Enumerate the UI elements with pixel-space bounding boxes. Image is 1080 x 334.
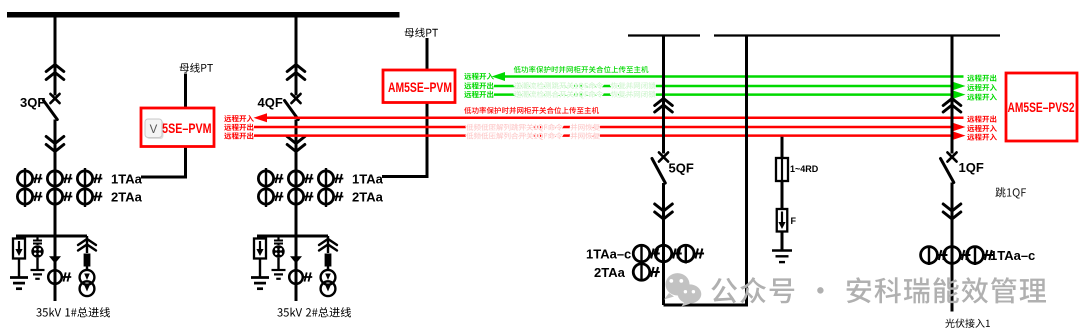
relay U1 AM5SE-PVM box	[141, 108, 214, 147]
relay U2 AM5SE-PVM box	[383, 70, 455, 103]
wire 3QF bay main riser	[54, 120, 57, 302]
CT group 1TAa-c / 2TAa at 5QF	[633, 244, 704, 281]
wire PV bus segment A	[628, 34, 700, 36]
drawout contact upper 4QF	[287, 65, 305, 80]
wire 3QF bay upper riser	[54, 16, 57, 96]
wire PT1 to relay	[184, 74, 187, 109]
busbar 35kV main bus	[7, 12, 400, 18]
wire PVM1 to CT (L shape)	[141, 147, 186, 178]
wire bottom junction bar	[257, 235, 328, 238]
label 2TAa	[111, 190, 143, 205]
label 2TAa at 5QF	[594, 265, 626, 280]
svg-text:V: V	[150, 124, 158, 136]
label trip 1QF (跳1QF)	[995, 187, 1026, 198]
label red remote at PVS2	[967, 115, 997, 140]
drawout contact lower 4QF	[287, 137, 305, 152]
label green heading	[514, 66, 649, 73]
svg-text:1QF: 1QF	[959, 160, 984, 175]
wire 4QF bay main riser	[295, 120, 298, 302]
label 5QF	[669, 161, 694, 176]
fuse 1~4RD	[776, 158, 788, 181]
watermark wechat logo	[664, 273, 701, 306]
label 1TAa	[352, 172, 384, 187]
label F	[791, 216, 797, 226]
svg-text:1TAa–c: 1TAa–c	[990, 248, 1035, 263]
surge arrester with ground	[10, 236, 28, 289]
wire green remote signal 3	[494, 90, 966, 99]
svg-text:F: F	[791, 216, 797, 226]
label 1TAa-c at 5QF	[586, 247, 631, 262]
delta winding and PT circle on feeder tail	[289, 256, 312, 284]
wire 1QF lower riser	[951, 183, 954, 312]
label remote in/out at PVM1	[224, 115, 254, 139]
label 2TAa	[352, 190, 384, 205]
drawout contact lower 3QF	[46, 137, 64, 152]
svg-text:4QF: 4QF	[258, 95, 283, 110]
charged display device with ground	[31, 236, 45, 279]
watermark text	[711, 277, 1046, 303]
label green line3 text	[514, 91, 655, 99]
label 1~4RD	[790, 164, 819, 174]
label bus PT 2 (母线PT)	[405, 28, 438, 38]
wire red remote signal 2	[254, 123, 966, 132]
drawout contact lower 5QF	[655, 204, 673, 219]
svg-text:1TAa: 1TAa	[111, 172, 143, 187]
label red heading	[464, 107, 599, 114]
drawout contact lower 1QF	[943, 204, 961, 219]
wire arrester to ground	[781, 232, 784, 251]
wire green remote signal 1	[492, 72, 964, 81]
svg-text:AM5SE–PVM: AM5SE–PVM	[388, 79, 452, 95]
label 4QF	[258, 95, 283, 110]
svg-text:1~4RD: 1~4RD	[790, 164, 819, 174]
wire fuse branch tap	[781, 137, 784, 209]
label 3QF	[20, 95, 45, 110]
svg-text:2TAa: 2TAa	[594, 265, 626, 280]
breaker 1QF	[941, 152, 957, 182]
wire 5QF lower riser	[662, 183, 665, 305]
breaker 4QF (open blade and x contact)	[285, 94, 301, 120]
wire bottom loop	[664, 36, 747, 306]
breaker 3QF (open blade and x contact)	[44, 94, 60, 120]
svg-text:3QF: 3QF	[20, 95, 45, 110]
svg-text:5QF: 5QF	[669, 161, 694, 176]
label 1TAa-c at 1QF	[990, 248, 1035, 263]
label 1TAa	[111, 172, 143, 187]
drawout contact upper 3QF	[46, 65, 64, 80]
wire red remote signal 1	[254, 113, 964, 122]
svg-text:2TAa: 2TAa	[111, 190, 143, 205]
wire 1QF riser	[951, 36, 954, 154]
wire PVM2 to CT (L shape)	[382, 102, 427, 177]
ground at arrester F	[772, 251, 792, 263]
CT group 1TAa / 2TAa	[258, 168, 343, 207]
CT group 1TAa / 2TAa	[17, 168, 102, 207]
svg-text:AM5SE–PVS2: AM5SE–PVS2	[1008, 100, 1075, 115]
breaker 5QF	[652, 152, 668, 183]
wire PT2 to relay	[426, 38, 429, 70]
wire 5QF riser	[662, 36, 665, 154]
arrester F	[777, 209, 788, 232]
wire red remote signal 3	[254, 131, 966, 140]
svg-text:1TAa–c: 1TAa–c	[586, 247, 631, 262]
relay U3 AM5SE-PVS2 box	[1006, 73, 1077, 141]
label 1QF	[959, 160, 984, 175]
surge arrester with ground	[251, 236, 269, 289]
CT group 1TAa-c at 1QF	[921, 246, 994, 266]
wire 4QF bay upper riser	[295, 16, 298, 96]
svg-text:1TAa: 1TAa	[352, 172, 384, 187]
label red line2 text	[466, 124, 600, 132]
label 35kV 1#总进线	[36, 307, 110, 317]
drawout contact upper 1QF	[943, 99, 961, 113]
charged display device with ground	[272, 236, 286, 279]
label green line2 text	[514, 82, 655, 90]
label remote in/out at PVM2	[464, 73, 494, 98]
drawout contact upper 5QF	[655, 99, 673, 113]
label green remote at PVS2	[967, 74, 997, 100]
svg-text:2TAa: 2TAa	[352, 190, 384, 205]
label PV feeder 1 (光伏接入1)	[945, 319, 990, 328]
label bus PT 1 (母线PT)	[180, 63, 213, 73]
wire green remote signal 2	[494, 82, 966, 91]
label red line3 text	[466, 132, 600, 140]
V overlay button	[145, 119, 164, 139]
wire PV bus segment B	[714, 34, 1000, 36]
label 35kV 2#总进线	[277, 307, 351, 317]
voltage transformer branch with fuse	[319, 236, 337, 296]
wire bottom junction bar	[16, 235, 87, 238]
voltage transformer branch with fuse	[78, 236, 96, 296]
delta winding and PT circle on feeder tail	[48, 256, 71, 284]
